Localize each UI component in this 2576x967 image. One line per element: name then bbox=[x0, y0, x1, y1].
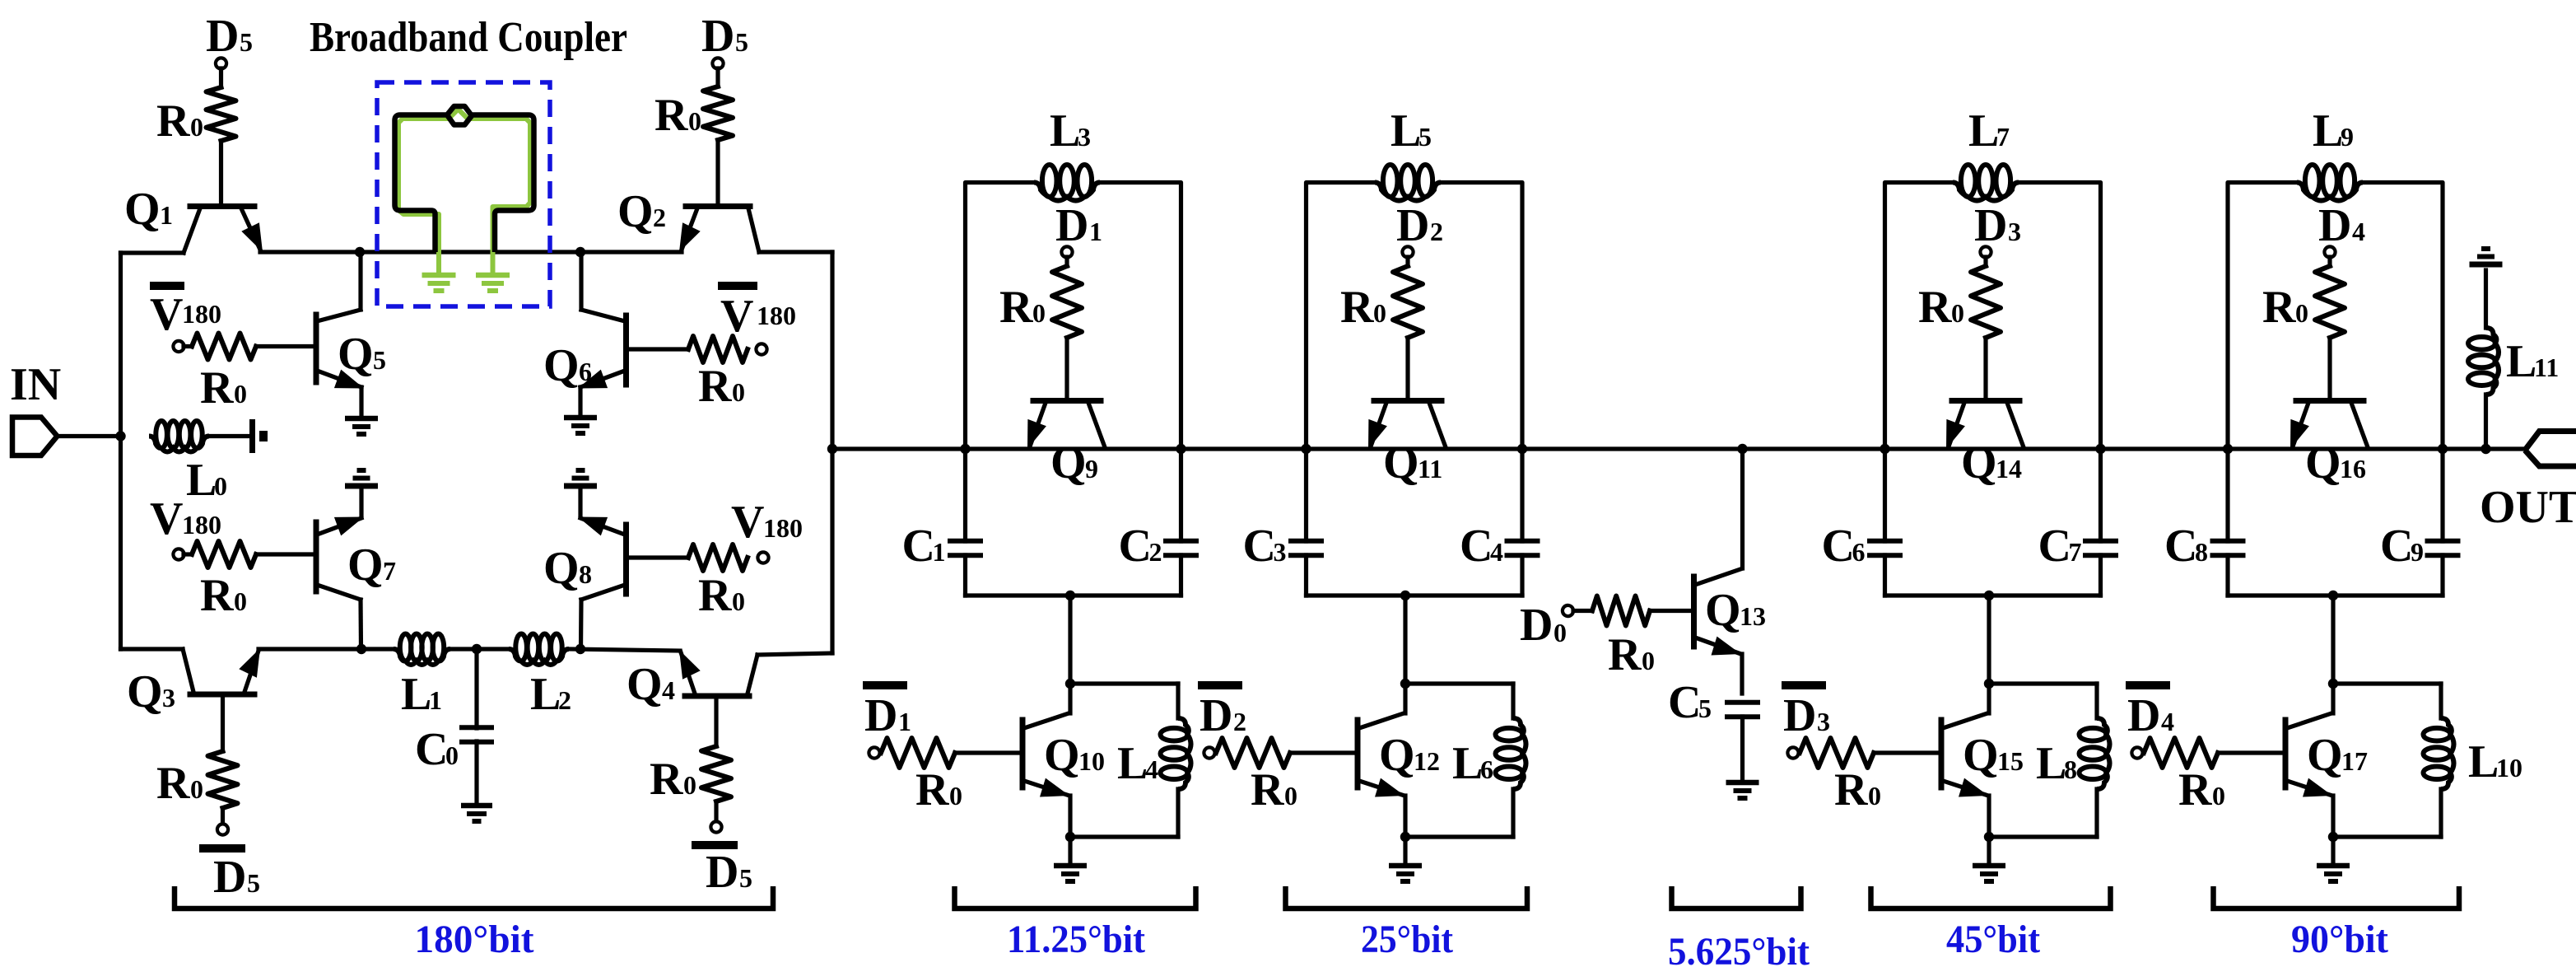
svg-text:3: 3 bbox=[2008, 217, 2021, 246]
label C6 bbox=[1822, 521, 1866, 572]
brace 90°bit bbox=[2214, 886, 2460, 909]
node 25deg collector junction bbox=[1400, 679, 1410, 689]
inductor L4 bbox=[1070, 684, 1191, 837]
svg-text:1: 1 bbox=[160, 200, 173, 230]
svg-text:9: 9 bbox=[2341, 122, 2354, 152]
resistor R0 (11.25deg top) bbox=[1052, 266, 1082, 338]
label V180 (Q7) bbox=[150, 493, 221, 544]
transistor Q13 bbox=[1694, 569, 1743, 694]
svg-text:R: R bbox=[1340, 282, 1374, 333]
svg-text:45°bit: 45°bit bbox=[1946, 918, 2040, 961]
transistor Q2 bbox=[679, 207, 759, 253]
svg-text:11.25°bit: 11.25°bit bbox=[1007, 918, 1145, 961]
label L6 bbox=[1452, 738, 1493, 789]
svg-text:L: L bbox=[2036, 738, 2066, 789]
wire 25deg top frame right bbox=[1441, 183, 1522, 450]
svg-text:Q: Q bbox=[617, 186, 654, 237]
svg-text:R: R bbox=[200, 570, 234, 621]
transistor Q8 bbox=[578, 517, 627, 650]
node 11.25deg center bbox=[1065, 591, 1075, 600]
wire R0 to Q2 bbox=[715, 140, 720, 205]
terminal D1bar bbox=[863, 685, 907, 759]
brace 45°bit bbox=[1871, 886, 2111, 909]
label D4bar bbox=[2127, 690, 2174, 741]
svg-text:0: 0 bbox=[688, 106, 701, 136]
svg-text:D: D bbox=[213, 852, 246, 903]
ac-ground (Q8) bbox=[564, 470, 597, 486]
label D5bar (Q3) bbox=[199, 848, 260, 903]
svg-text:11: 11 bbox=[2534, 353, 2559, 382]
coupler green trace bbox=[398, 110, 530, 274]
svg-text:2: 2 bbox=[1149, 537, 1162, 567]
svg-text:4: 4 bbox=[1490, 537, 1503, 567]
label D0 bbox=[1520, 600, 1567, 651]
label 11.25°bit bbox=[1007, 918, 1145, 961]
svg-text:V: V bbox=[150, 493, 183, 544]
wire 11.25deg cap bottom bbox=[966, 593, 1181, 597]
inductor L2 bbox=[509, 634, 569, 666]
label D1 bbox=[1055, 200, 1102, 251]
label C0 bbox=[415, 724, 459, 775]
node 25deg left bus bbox=[1301, 444, 1311, 454]
svg-text:2: 2 bbox=[558, 685, 571, 715]
wire 11.25deg top frame right bbox=[1100, 183, 1181, 450]
wire R0 to Q10 base bbox=[955, 750, 1022, 754]
wire 11.25deg top frame left bbox=[966, 183, 1035, 450]
resistor R0 (D2bar) bbox=[1216, 738, 1290, 768]
resistor R0 (Q3) bbox=[208, 751, 238, 808]
inductor L11 bbox=[2468, 270, 2499, 449]
svg-text:180: 180 bbox=[182, 510, 221, 540]
svg-text:10: 10 bbox=[1078, 746, 1105, 776]
inductor L6 bbox=[1405, 684, 1526, 837]
svg-text:D: D bbox=[2127, 690, 2160, 741]
node Q7 bus junction bbox=[356, 644, 366, 654]
svg-text:L: L bbox=[186, 455, 217, 506]
transistor Q12 bbox=[1358, 684, 1405, 837]
wire L1 to C0 node bbox=[450, 647, 509, 651]
label C9 bbox=[2380, 521, 2424, 572]
label L8 bbox=[2036, 738, 2077, 789]
svg-text:L: L bbox=[1050, 105, 1080, 156]
capacitor C9 bbox=[2425, 449, 2461, 596]
label V180 (Q8) bbox=[731, 497, 803, 548]
label C2 bbox=[1119, 521, 1162, 572]
svg-text:D: D bbox=[701, 11, 734, 62]
wire Q8 emitter to ac-ground bbox=[578, 486, 582, 517]
node 25deg right bus bbox=[1517, 444, 1527, 454]
transistor Q15 bbox=[1941, 684, 1989, 837]
label 45°bit bbox=[1946, 918, 2040, 961]
node Q13 bus junction bbox=[1737, 444, 1747, 454]
svg-text:C: C bbox=[1243, 521, 1276, 572]
node Q10 emitter junction bbox=[1065, 832, 1075, 842]
svg-text:0: 0 bbox=[1373, 298, 1386, 328]
label V180bar (Q5) bbox=[150, 289, 221, 340]
wire 25deg center drop bbox=[1403, 596, 1407, 684]
label L77 bbox=[1968, 105, 2010, 156]
svg-text:2: 2 bbox=[1233, 707, 1246, 736]
node 45deg center bbox=[1984, 591, 1994, 600]
svg-text:R: R bbox=[1834, 764, 1868, 815]
resistor R0 (D4bar) bbox=[2144, 738, 2218, 768]
svg-text:0: 0 bbox=[1642, 646, 1655, 675]
svg-text:0: 0 bbox=[190, 112, 203, 142]
wire 25deg cap bottom bbox=[1307, 593, 1523, 597]
node coupler left bbox=[355, 247, 365, 257]
ac-ground (L11) bbox=[2470, 249, 2503, 264]
capacitor C1 bbox=[948, 449, 983, 596]
stub termination bbox=[253, 419, 268, 453]
label R0 (45deg top) bbox=[1918, 282, 1964, 333]
transistor Q14 bbox=[1946, 401, 2024, 450]
label C5 bbox=[1668, 677, 1712, 728]
svg-text:Q: Q bbox=[1705, 585, 1741, 636]
svg-text:1: 1 bbox=[429, 685, 442, 715]
wire right rail bbox=[830, 252, 834, 653]
svg-text:D: D bbox=[864, 690, 897, 741]
svg-text:IN: IN bbox=[10, 359, 61, 410]
svg-text:5: 5 bbox=[739, 863, 752, 893]
wire 45deg top frame right bbox=[2019, 183, 2101, 450]
wire Q7 emitter to ac-ground bbox=[359, 486, 363, 517]
svg-text:5: 5 bbox=[240, 27, 253, 57]
wire main bus bbox=[832, 446, 2525, 451]
transistor Q4 bbox=[679, 650, 832, 696]
transistor Q5 bbox=[316, 252, 364, 389]
label R0 (90deg bottom) bbox=[2178, 764, 2225, 815]
label Q1 bbox=[124, 184, 173, 235]
svg-text:180: 180 bbox=[763, 513, 803, 543]
svg-text:0: 0 bbox=[190, 774, 203, 804]
svg-text:L: L bbox=[530, 669, 561, 720]
svg-text:D: D bbox=[1520, 600, 1553, 651]
terminal V180bar (Q6) bbox=[718, 286, 767, 355]
terminal V180 (Q8) bbox=[757, 552, 768, 563]
svg-text:4: 4 bbox=[1145, 754, 1158, 784]
label L4 bbox=[1117, 738, 1158, 789]
label C1 bbox=[902, 521, 946, 572]
wire Q6 emitter to ground bbox=[578, 387, 582, 415]
label D2bar bbox=[1199, 690, 1246, 741]
svg-text:0: 0 bbox=[732, 377, 745, 407]
svg-text:Q: Q bbox=[1379, 730, 1415, 781]
svg-text:Q: Q bbox=[1050, 437, 1087, 488]
svg-text:C: C bbox=[1460, 521, 1493, 572]
svg-text:R: R bbox=[698, 570, 732, 621]
svg-text:8: 8 bbox=[2064, 754, 2077, 784]
svg-text:16: 16 bbox=[2340, 454, 2366, 483]
label L2 bbox=[530, 669, 571, 720]
label Q6 bbox=[543, 340, 592, 391]
label R0 (Q3) bbox=[156, 758, 203, 809]
svg-text:V: V bbox=[731, 497, 764, 548]
svg-text:0: 0 bbox=[1554, 618, 1567, 647]
svg-text:C: C bbox=[1668, 677, 1701, 728]
svg-text:Q: Q bbox=[543, 340, 580, 391]
wire D4 to R0 bbox=[2327, 257, 2331, 266]
label Q5 bbox=[338, 329, 386, 380]
label R0 (Q13) bbox=[1608, 629, 1655, 680]
wire R0 to Q17 base bbox=[2218, 750, 2285, 754]
wire 90deg center drop bbox=[2331, 596, 2335, 684]
svg-text:17: 17 bbox=[2341, 746, 2368, 776]
transistor Q3 bbox=[121, 648, 261, 694]
terminal D2bar bbox=[1198, 685, 1242, 759]
wire R0 to Q9 bbox=[1064, 338, 1069, 399]
wire R0 to Q7 base bbox=[256, 552, 314, 556]
svg-text:D: D bbox=[2318, 200, 2351, 251]
resistor R0 (Q2 collector) bbox=[703, 86, 733, 140]
label D5bar (Q4) bbox=[692, 845, 752, 898]
svg-text:5: 5 bbox=[373, 345, 386, 375]
node 90deg collector junction bbox=[2328, 679, 2338, 689]
wire L2 to Q4 bbox=[569, 649, 680, 651]
label C4 bbox=[1460, 521, 1503, 572]
svg-text:D: D bbox=[706, 847, 738, 898]
terminal D5 (Q1) bbox=[216, 58, 226, 68]
label C7 bbox=[2038, 521, 2082, 572]
wire Q15 to ground bbox=[1987, 837, 1991, 863]
coupler green ground right bbox=[476, 275, 510, 291]
svg-text:2: 2 bbox=[1430, 217, 1443, 246]
label L1 bbox=[401, 669, 442, 720]
node coupler right bbox=[575, 247, 585, 257]
svg-text:R: R bbox=[654, 90, 688, 141]
svg-text:Q: Q bbox=[2305, 437, 2341, 488]
wire V180 to R0 (Q7) bbox=[184, 552, 192, 556]
label D4 bbox=[2318, 200, 2365, 251]
transistor Q11 bbox=[1368, 401, 1446, 450]
inductor L55 bbox=[1375, 165, 1441, 201]
label D5 (Q2) bbox=[701, 11, 748, 62]
transistor Q9 bbox=[1027, 401, 1105, 450]
svg-text:Q: Q bbox=[1044, 730, 1080, 781]
svg-text:1: 1 bbox=[898, 707, 911, 736]
wire 45deg top frame left bbox=[1885, 183, 1954, 450]
svg-text:7: 7 bbox=[1996, 122, 2010, 152]
resistor R0 (25deg top) bbox=[1393, 266, 1423, 338]
label D5 (Q1) bbox=[206, 11, 253, 62]
label Q3 bbox=[127, 666, 175, 717]
svg-text:OUT: OUT bbox=[2480, 482, 2576, 533]
label L99 bbox=[2313, 105, 2354, 156]
resistor R0 (Q6 base) bbox=[688, 336, 748, 362]
resistor R0 (D3bar) bbox=[1800, 738, 1874, 768]
svg-text:3: 3 bbox=[1274, 537, 1287, 567]
svg-text:1: 1 bbox=[1089, 217, 1102, 246]
label V180bar (Q6) bbox=[720, 291, 796, 342]
label R0 (90deg top) bbox=[2262, 282, 2308, 333]
node 25deg center bbox=[1400, 591, 1410, 600]
wire R0 to Q11 bbox=[1405, 338, 1409, 399]
label Q15 bbox=[1963, 730, 2024, 781]
svg-text:0: 0 bbox=[949, 781, 962, 811]
node 45deg right bus bbox=[2095, 444, 2105, 454]
node 45deg collector junction bbox=[1984, 679, 1994, 689]
node 90deg right bus bbox=[2438, 444, 2448, 454]
coupler green ground left bbox=[422, 275, 456, 291]
svg-text:R: R bbox=[698, 361, 732, 412]
capacitor C2 bbox=[1163, 449, 1199, 596]
label L11 bbox=[2506, 336, 2559, 387]
terminal D5 (Q2) bbox=[712, 58, 723, 68]
label D3bar bbox=[1783, 690, 1830, 741]
node Q12 emitter junction bbox=[1400, 832, 1410, 842]
label Q13 bbox=[1705, 585, 1766, 636]
wire R0 to Q13 base bbox=[1650, 609, 1694, 613]
inductor L33 bbox=[1034, 165, 1100, 201]
svg-text:R: R bbox=[999, 282, 1033, 333]
ground (Q6) bbox=[564, 418, 597, 433]
svg-text:Q: Q bbox=[338, 329, 374, 380]
svg-text:L: L bbox=[1968, 105, 1999, 156]
svg-text:4: 4 bbox=[2161, 707, 2174, 736]
node 11.25deg right bus bbox=[1176, 444, 1186, 454]
svg-text:0: 0 bbox=[1284, 781, 1297, 811]
node C0 junction bbox=[472, 644, 482, 654]
wire D2 to R0 bbox=[1405, 257, 1409, 266]
capacitor C6 bbox=[1867, 449, 1903, 596]
wire 45deg center drop bbox=[1987, 596, 1991, 684]
svg-text:1: 1 bbox=[933, 537, 946, 567]
svg-text:R: R bbox=[650, 754, 683, 805]
node Q15 emitter junction bbox=[1984, 832, 1994, 842]
resistor R0 (Q5 base) bbox=[192, 334, 256, 360]
svg-text:11: 11 bbox=[1418, 454, 1442, 483]
brace 11.25°bit bbox=[955, 886, 1196, 909]
label L55 bbox=[1390, 105, 1432, 156]
capacitor C0 bbox=[459, 649, 494, 803]
label Q2 bbox=[617, 186, 666, 237]
terminal D3bar bbox=[1782, 685, 1826, 759]
svg-text:8: 8 bbox=[579, 559, 592, 589]
svg-text:D: D bbox=[1055, 200, 1088, 251]
svg-text:4: 4 bbox=[2352, 217, 2365, 246]
svg-text:5: 5 bbox=[1698, 694, 1712, 723]
svg-text:10: 10 bbox=[2496, 753, 2522, 782]
svg-text:Broadband Coupler: Broadband Coupler bbox=[310, 14, 627, 61]
svg-text:0: 0 bbox=[445, 740, 459, 770]
label R0 (Q4) bbox=[650, 754, 696, 805]
wire Q12 to ground bbox=[1403, 837, 1407, 863]
label C3 bbox=[1243, 521, 1287, 572]
terminal D1 bbox=[1061, 246, 1072, 257]
node 45deg left bus bbox=[1880, 444, 1889, 454]
svg-text:15: 15 bbox=[1997, 746, 2024, 776]
IN port terminal bbox=[12, 418, 58, 456]
terminal D4bar bbox=[2126, 685, 2170, 759]
label R0 (11.25deg top) bbox=[999, 282, 1046, 333]
ground (90deg) bbox=[2317, 866, 2350, 881]
wire Q2 to right rail bbox=[759, 250, 832, 254]
label R0 (Q1) bbox=[156, 96, 203, 147]
label 90°bit bbox=[2291, 918, 2388, 961]
resistor R0 (90deg top) bbox=[2315, 266, 2345, 338]
brace 25°bit bbox=[1286, 886, 1528, 909]
svg-text:L: L bbox=[1390, 105, 1421, 156]
inductor L8 bbox=[1989, 684, 2110, 837]
svg-text:9: 9 bbox=[2411, 537, 2424, 567]
svg-text:Q: Q bbox=[1961, 437, 1997, 488]
node 11.25deg collector junction bbox=[1065, 679, 1075, 689]
label Q11 bbox=[1383, 437, 1442, 488]
wire Q3 to R0 bbox=[221, 697, 225, 751]
svg-text:0: 0 bbox=[1868, 781, 1881, 811]
wire R0 to D5bar (Q3) bbox=[221, 808, 225, 824]
label 180°bit bbox=[415, 918, 534, 961]
svg-text:Q: Q bbox=[627, 659, 663, 710]
svg-text:4: 4 bbox=[662, 675, 675, 705]
ground (11.25deg) bbox=[1054, 866, 1087, 881]
coupler dashed box bbox=[377, 82, 550, 306]
svg-text:Q: Q bbox=[347, 540, 384, 591]
wire 25deg top frame left bbox=[1307, 183, 1376, 450]
inductor L77 bbox=[1953, 165, 2019, 201]
svg-text:5: 5 bbox=[1418, 122, 1432, 152]
svg-text:2: 2 bbox=[653, 203, 666, 232]
label Q17 bbox=[2307, 730, 2368, 781]
svg-text:8: 8 bbox=[2195, 537, 2208, 567]
label R0 (25deg bottom) bbox=[1251, 764, 1297, 815]
label Q7 bbox=[347, 540, 396, 591]
svg-text:L: L bbox=[2468, 736, 2499, 787]
label R0 (Q8 base) bbox=[698, 570, 745, 621]
svg-text:13: 13 bbox=[1740, 601, 1766, 631]
resistor R0 (Q4) bbox=[701, 746, 731, 801]
label Q16 bbox=[2305, 437, 2366, 488]
node main bus tap bbox=[827, 444, 837, 454]
label D2 bbox=[1396, 200, 1443, 251]
label R0 (Q2) bbox=[654, 90, 701, 141]
label 5.625°bit bbox=[1668, 930, 1810, 967]
svg-text:L: L bbox=[1117, 738, 1148, 789]
svg-text:C: C bbox=[902, 521, 935, 572]
coupler microstrip outline bbox=[395, 106, 534, 252]
svg-text:D: D bbox=[1783, 690, 1816, 741]
svg-text:6: 6 bbox=[1480, 754, 1493, 784]
svg-text:C: C bbox=[2038, 521, 2071, 572]
transistor Q17 bbox=[2285, 684, 2333, 837]
svg-text:180: 180 bbox=[757, 301, 796, 330]
wire Q4 to R0 bbox=[714, 698, 718, 746]
svg-text:0: 0 bbox=[234, 586, 247, 616]
inductor L1 bbox=[394, 634, 450, 666]
resistor R0 (D1bar) bbox=[881, 738, 955, 768]
ground (25deg) bbox=[1389, 866, 1422, 881]
transistor Q10 bbox=[1022, 684, 1070, 837]
svg-text:6: 6 bbox=[579, 357, 592, 386]
svg-text:R: R bbox=[1918, 282, 1952, 333]
svg-text:7: 7 bbox=[2069, 537, 2082, 567]
node 11.25deg left bus bbox=[960, 444, 970, 454]
wire R0 to Q16 bbox=[2327, 338, 2331, 399]
svg-text:V: V bbox=[150, 289, 183, 340]
svg-text:L: L bbox=[401, 669, 431, 720]
terminal D3 bbox=[1980, 246, 1991, 257]
wire Q5 emitter to ground bbox=[359, 387, 363, 416]
label IN bbox=[10, 359, 61, 410]
svg-text:R: R bbox=[1608, 629, 1642, 680]
wire 11.25deg center drop bbox=[1068, 596, 1072, 684]
transistor Q6 bbox=[578, 252, 627, 389]
svg-text:3: 3 bbox=[162, 683, 175, 712]
svg-text:Q: Q bbox=[127, 666, 163, 717]
wire left rail bbox=[119, 253, 123, 649]
node Q8 bus junction bbox=[575, 644, 585, 654]
svg-text:0: 0 bbox=[1951, 298, 1964, 328]
node 90deg center bbox=[2328, 591, 2338, 600]
